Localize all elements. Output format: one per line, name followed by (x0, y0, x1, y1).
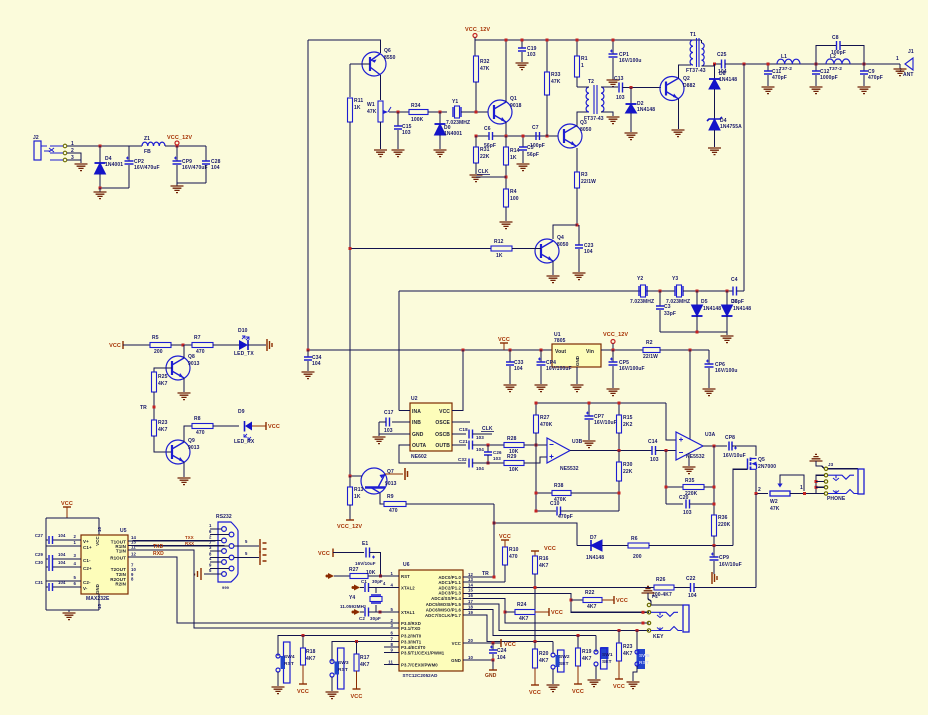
svg-text:C18: C18 (459, 427, 468, 432)
svg-text:RXD: RXD (153, 551, 164, 557)
earth at D10 (267, 339, 272, 351)
junction opamp bias (689, 349, 692, 352)
svg-text:OSCB: OSCB (435, 432, 450, 438)
svg-text:Y2: Y2 (637, 276, 643, 282)
ground under CP1 (607, 80, 620, 87)
LED D9 LED_RX (245, 422, 252, 431)
svg-text:103: 103 (384, 428, 393, 434)
svg-text:16V/10uF: 16V/10uF (719, 562, 742, 568)
svg-text:NE5532: NE5532 (560, 466, 579, 472)
ground under C19 (516, 63, 529, 70)
junction bottom net (713, 544, 716, 547)
svg-text:1N4001: 1N4001 (444, 131, 462, 137)
resistor R19 4K7 (577, 636, 579, 649)
wire T2 secondary bottom to ground (601, 112, 613, 116)
svg-text:GND: GND (485, 673, 497, 679)
ground at J3 (810, 454, 823, 461)
svg-text:Q6: Q6 (384, 48, 391, 54)
wire T1OUT to DB9 pin2 TX (128, 540, 222, 543)
ground under C11 (762, 87, 775, 94)
svg-text:C14: C14 (648, 439, 658, 445)
svg-text:R22: R22 (585, 590, 595, 596)
transistor Q2 D882 (660, 77, 684, 101)
wire Z1 to C28 (165, 145, 206, 147)
wire Q1 collector to rail (505, 40, 507, 102)
svg-text:C17: C17 (384, 410, 394, 416)
resistor R23b 4K7 (152, 420, 157, 436)
svg-text:R18: R18 (306, 649, 316, 655)
svg-text:47K: 47K (770, 506, 780, 512)
svg-text:VCC: VCC (572, 689, 584, 695)
svg-text:C8: C8 (832, 35, 839, 41)
svg-text:C1+: C1+ (83, 545, 92, 550)
wire R6 to output node (649, 545, 733, 547)
svg-text:17: 17 (468, 599, 473, 604)
svg-text:T1IN: T1IN (116, 549, 126, 554)
ground under C34 (302, 372, 315, 379)
capacitor C1 30pF (360, 587, 364, 589)
wire C21 to R28 (473, 444, 505, 446)
svg-text:P3.3/INT1: P3.3/INT1 (401, 640, 422, 645)
junction D6 (726, 290, 729, 293)
wire D10 to earth (248, 344, 266, 346)
capacitor C26 103 (487, 445, 489, 452)
wire T1 secondary bottom (702, 64, 722, 66)
svg-text:R19: R19 (582, 649, 592, 655)
port arrow at C2 (354, 609, 360, 615)
svg-text:VCC: VCC (529, 690, 541, 696)
svg-text:R23: R23 (623, 644, 633, 650)
svg-text:22/1W: 22/1W (581, 179, 596, 185)
wire J1 pin2 to earth (899, 64, 901, 68)
junction RST (379, 575, 382, 578)
svg-text:100K: 100K (411, 117, 424, 123)
resistor R11 1K (348, 98, 353, 122)
svg-text:R2: R2 (646, 340, 653, 346)
wire R38 to R30 bottom (571, 492, 619, 494)
svg-text:470: 470 (509, 554, 518, 560)
svg-text:10: 10 (468, 655, 473, 660)
junction Q1 base (475, 111, 478, 114)
wire pin15 to R22 and P4 (463, 594, 649, 613)
junction OUTA-C26 (487, 462, 490, 465)
resistor R12 1K (491, 246, 512, 251)
capacitor C3 33pF (659, 291, 661, 306)
junction R22 net (570, 599, 573, 602)
svg-text:U6: U6 (403, 562, 410, 568)
svg-text:1N4001: 1N4001 (105, 162, 123, 168)
svg-text:R13: R13 (354, 487, 364, 493)
wire R23b to Q9 base (154, 436, 172, 452)
wire R1 to T2 primary top (577, 86, 589, 88)
capacitor C28 104 (205, 146, 207, 161)
junction R19 top (577, 634, 580, 637)
diode D7 1N4148 (577, 545, 591, 547)
svg-text:R4: R4 (510, 189, 517, 195)
svg-text:104: 104 (476, 466, 484, 471)
wire U5 left rail (45, 518, 47, 610)
wire bias into U3A plus (666, 403, 678, 440)
junction SW5 drop (636, 629, 639, 632)
svg-text:J3: J3 (828, 462, 834, 467)
wire C13 to Q2 base (623, 87, 662, 89)
svg-text:103: 103 (527, 52, 536, 58)
junction emitter net (505, 135, 508, 138)
wire DB9 pin1 stub (210, 528, 222, 530)
svg-text:P3.2/INT0: P3.2/INT0 (401, 634, 422, 639)
svg-text:8550: 8550 (384, 55, 396, 61)
junction C33 (509, 349, 512, 352)
wire Q8 collector (183, 345, 185, 358)
wire U5 top rail (46, 517, 99, 519)
svg-text:11.0592MHz: 11.0592MHz (340, 604, 367, 609)
capacitor C23 104 (578, 225, 580, 245)
capacitor CP1 16V/100u (612, 40, 614, 54)
svg-text:R32: R32 (480, 59, 490, 65)
svg-text:RST: RST (401, 574, 410, 579)
svg-text:P3.1/TXD: P3.1/TXD (401, 626, 420, 631)
capacitor E1 16V/10uF (366, 548, 370, 558)
junction U3A minus node (665, 449, 668, 452)
svg-text:U3A: U3A (705, 432, 716, 438)
svg-text:220K: 220K (718, 522, 731, 528)
svg-text:4K7: 4K7 (623, 651, 633, 657)
svg-text:4K7: 4K7 (582, 656, 592, 662)
power symbol VCC under R18 (299, 683, 307, 685)
wire R8 to LED D9 (213, 425, 239, 427)
switch SW4 RST (284, 642, 291, 683)
wire Y1 to Q1 base (461, 111, 488, 113)
crystal Y4 11.0592MHz (375, 588, 377, 594)
svg-text:4K7: 4K7 (158, 381, 168, 387)
inductor L1 T37-2 (777, 59, 800, 64)
svg-text:7.023MHZ: 7.023MHZ (666, 299, 690, 305)
wire W2 to phone jack (790, 493, 824, 495)
resistor R22 4K7 (583, 598, 602, 603)
capacitor C30 104 at C2+ (46, 566, 48, 568)
ground under C23 (573, 273, 586, 280)
svg-text:C13: C13 (614, 76, 624, 82)
diode D2 1N4148 (630, 88, 632, 105)
wire U3A output (703, 445, 727, 447)
svg-text:Q5: Q5 (758, 457, 765, 463)
junction TR net (493, 522, 496, 525)
wire DB9 pin4 stub (210, 561, 222, 563)
regulator U1 7805 (552, 344, 601, 367)
resistor R31 22K (475, 136, 477, 147)
svg-text:Q2: Q2 (683, 76, 690, 82)
jack J3 internals (816, 475, 824, 493)
svg-text:20: 20 (468, 638, 473, 643)
svg-text:4K7: 4K7 (158, 427, 168, 433)
svg-text:100pF: 100pF (530, 143, 545, 149)
svg-text:8050: 8050 (557, 242, 569, 248)
resistor R20 4K7 (534, 642, 536, 650)
svg-text:ANT: ANT (903, 72, 914, 78)
junction R33 bottom (546, 135, 549, 138)
resistor R13 1K (349, 476, 351, 487)
svg-text:999: 999 (222, 585, 230, 590)
svg-text:R16: R16 (539, 556, 549, 562)
wire OSCE stub (452, 421, 470, 423)
wire top rail y=40 (475, 39, 701, 41)
capacitor C6 56pF (489, 132, 493, 140)
resistor R29 10K (504, 461, 524, 466)
switch SW5 RST (636, 631, 638, 653)
diode D8 1N4148 (714, 64, 716, 79)
wire Q6 base (350, 63, 370, 65)
resistor R10 470 (504, 545, 506, 547)
wire CP9-C28 bottom (177, 182, 206, 184)
junction R30 top (618, 449, 621, 452)
transistor Q8 9013 (166, 356, 190, 380)
junction output node (713, 445, 716, 448)
svg-text:470K: 470K (540, 422, 553, 428)
svg-text:U3B: U3B (572, 439, 583, 445)
resistor R21 10K (334, 575, 350, 577)
svg-text:Vout: Vout (555, 349, 566, 355)
junction dots at P4 (642, 611, 645, 614)
svg-text:D7: D7 (590, 535, 597, 541)
svg-text:4K7: 4K7 (360, 662, 370, 668)
svg-text:103: 103 (683, 510, 692, 516)
wire E1 to RST (370, 553, 381, 577)
wire J2 pins 2,3 to ground (67, 153, 81, 160)
crystal Y1 7.023MHZ (453, 107, 461, 117)
resistor R26 200-4K7 (654, 585, 674, 590)
junction R12 left (349, 247, 352, 250)
svg-text:R5: R5 (152, 335, 159, 341)
svg-text:1N4755A: 1N4755A (720, 124, 742, 130)
svg-text:4K7: 4K7 (539, 563, 549, 569)
resistor R24 4K7 (515, 610, 535, 615)
svg-text:SET: SET (559, 661, 569, 667)
svg-text:XTAL2: XTAL2 (401, 586, 415, 591)
power symbol VCC at D9 (265, 422, 267, 430)
svg-text:19: 19 (468, 610, 473, 615)
transformer T2 FT37-43 (586, 87, 589, 112)
resistor R17 4K7 (356, 642, 358, 655)
wire U5 pin15 to ground (98, 594, 100, 610)
svg-text:C22: C22 (686, 576, 696, 582)
svg-text:RXX: RXX (185, 541, 194, 546)
wire R21 to RST pin (368, 575, 399, 577)
driver U5 MAX232E (81, 535, 128, 594)
svg-text:TR: TR (482, 571, 489, 577)
resistor R23 4K7 (618, 631, 620, 644)
wire R5 to R7 (171, 344, 192, 346)
svg-text:OUTA: OUTA (412, 443, 426, 449)
junction bottom D5 (696, 331, 699, 334)
svg-text:100: 100 (510, 196, 519, 202)
svg-text:C25: C25 (717, 52, 727, 58)
wire bias vertical x=690 (689, 350, 691, 439)
potentiometer W1 47K (380, 75, 382, 100)
junction D0 (439, 111, 442, 114)
svg-text:P4: P4 (652, 594, 658, 599)
wire DB9 pin3 stub (210, 550, 222, 552)
wire Y3 to C4 (683, 290, 733, 292)
wire DB9 pin9 stub (210, 568, 229, 570)
svg-text:R1OUT: R1OUT (110, 556, 126, 561)
svg-text:C1-: C1- (83, 558, 91, 563)
svg-text:RST: RST (639, 660, 649, 666)
port arrow at R21 (328, 573, 334, 579)
svg-text:SET: SET (602, 659, 612, 665)
wire P4 sleeve (651, 604, 683, 606)
svg-text:104: 104 (497, 655, 506, 661)
ground under C17 (373, 437, 386, 444)
svg-text:SW5: SW5 (639, 653, 650, 659)
wire C17 to ground (379, 421, 386, 423)
svg-text:VCC: VCC (318, 551, 330, 557)
crystal Y3 7.023MHZ (675, 286, 683, 296)
svg-text:15: 15 (468, 588, 473, 593)
svg-text:Q4: Q4 (557, 235, 564, 241)
svg-text:R7: R7 (194, 335, 201, 341)
transformer T1 FT37-43 (690, 40, 693, 65)
wire R7 to LED D10 (213, 344, 239, 346)
wire Q3 collector to T2 (577, 112, 589, 127)
wire P3.2/INT0 to SW4 (278, 636, 399, 657)
earth at DB9 pin5 (195, 568, 202, 580)
svg-text:47K: 47K (480, 66, 490, 72)
svg-text:Y4: Y4 (349, 595, 355, 601)
wire TR vertical x=494 (493, 504, 495, 575)
junction R23 top (618, 629, 621, 632)
svg-text:V+: V+ (83, 539, 89, 544)
wire C18 to CLK stub (473, 433, 493, 435)
svg-text:C27: C27 (35, 533, 44, 538)
junction D2 top (630, 86, 633, 89)
wire stub P3.5 (384, 652, 399, 654)
wire T2 secondary top to C13 (601, 86, 618, 88)
svg-text:15: 15 (97, 604, 102, 609)
svg-text:103: 103 (650, 457, 659, 463)
wire stub P3.7 (384, 664, 399, 666)
transistor Q7 9013 (361, 468, 387, 494)
wire OUTA loop (399, 445, 466, 463)
svg-text:56pF: 56pF (527, 152, 539, 158)
ground under D4 (99, 188, 101, 192)
svg-text:2: 2 (758, 487, 761, 493)
svg-text:C24: C24 (497, 648, 507, 654)
svg-text:D10: D10 (238, 328, 248, 334)
wire mixer to U2 INA (398, 291, 400, 411)
ground under U3A (688, 453, 690, 466)
wire DB9 handshake loop 2 (234, 557, 259, 559)
svg-text:47K: 47K (367, 109, 377, 115)
capacitor C31 104 at V- (46, 586, 48, 588)
wire pin18 staircase to SW1 (463, 610, 596, 636)
wire output vertical x=714 (713, 446, 715, 515)
svg-text:VCC_12V: VCC_12V (465, 27, 490, 33)
svg-text:1: 1 (800, 485, 803, 491)
svg-text:16V/100u: 16V/100u (619, 58, 641, 64)
wire Q8 base to R25 (154, 368, 172, 372)
capacitor CP8 16V/10uF (729, 442, 732, 451)
wire R11 down long vertical x=350 (349, 122, 351, 476)
svg-text:4K7: 4K7 (519, 616, 529, 622)
svg-text:P3.5/T1/CEX1/PWM1: P3.5/T1/CEX1/PWM1 (401, 651, 445, 656)
ground under CP9 (176, 183, 178, 186)
svg-text:W1: W1 (367, 102, 375, 108)
wire R32 branch (474, 40, 476, 56)
svg-text:R26: R26 (656, 577, 666, 583)
svg-text:9018: 9018 (510, 103, 522, 109)
resistor R25 4K7 (152, 372, 157, 392)
capacitor C11 470pF (767, 64, 769, 71)
capacitor C34 104 (307, 350, 309, 357)
svg-text:OSCE: OSCE (435, 420, 450, 426)
ground under C9 (858, 87, 871, 94)
svg-text:C20: C20 (679, 495, 689, 501)
svg-text:104: 104 (476, 447, 484, 452)
resistor R3 22/1W (576, 148, 578, 172)
wire GND pin10 (463, 659, 493, 661)
wire Q4 emitter (552, 261, 554, 275)
wire VCC rail y=350 (308, 349, 552, 351)
svg-text:ADC7/SCLK/P1.7: ADC7/SCLK/P1.7 (425, 613, 462, 618)
svg-text:U2: U2 (411, 396, 418, 402)
svg-text:J1: J1 (908, 49, 914, 55)
resistor R14 1K (505, 136, 507, 147)
svg-text:1: 1 (896, 56, 899, 62)
svg-text:1N4148: 1N4148 (703, 306, 721, 312)
wire GND pin (379, 433, 410, 435)
svg-text:LED_RX: LED_RX (234, 439, 255, 445)
wire left tall vertical x=308 (307, 40, 309, 350)
capacitor CP4 16V/100uF (540, 350, 542, 362)
svg-text:C29: C29 (35, 552, 44, 557)
svg-text:INB: INB (412, 420, 421, 426)
svg-text:104: 104 (718, 69, 727, 75)
svg-text:VCC: VCC (616, 598, 628, 604)
op-amp U3B NE5532 (547, 438, 570, 463)
capacitor C25 104 (722, 60, 726, 69)
svg-text:7805: 7805 (554, 338, 566, 344)
wire Q2 collector to T1 (679, 65, 692, 79)
svg-text:R25: R25 (158, 374, 168, 380)
svg-text:9013: 9013 (188, 361, 200, 367)
svg-text:J2: J2 (33, 135, 39, 141)
svg-text:ADC6/MISO/P1.6: ADC6/MISO/P1.6 (426, 608, 462, 613)
resistor R15 2K2 (618, 403, 620, 415)
wire R32 to Q1 base (475, 82, 477, 112)
capacitor C7 100pF (536, 132, 540, 140)
svg-text:33pF: 33pF (732, 299, 744, 305)
svg-text:MAX232E: MAX232E (86, 596, 110, 602)
mosfet Q5 2N7000 (747, 459, 749, 470)
svg-text:P3.7/CEX0/PWM0: P3.7/CEX0/PWM0 (401, 663, 438, 668)
wire pin19 staircase to SW2 (463, 615, 553, 642)
wire DB9 handshake loop 1 (234, 545, 259, 547)
svg-text:1K: 1K (354, 105, 361, 111)
resistor R18 4K7 (302, 636, 304, 649)
power symbol VCC under R23 (615, 678, 623, 680)
svg-text:R27: R27 (349, 567, 359, 573)
svg-text:GND: GND (95, 584, 100, 594)
junction CP4 (540, 349, 543, 352)
svg-text:RST: RST (338, 667, 348, 673)
svg-text:1K: 1K (496, 253, 503, 259)
svg-text:100pF: 100pF (831, 50, 846, 56)
junction rail x=506 (505, 39, 508, 42)
svg-text:FT37-43: FT37-43 (584, 116, 604, 122)
wire U2 VCC pin up (452, 350, 463, 411)
svg-text:22/1W: 22/1W (643, 354, 658, 360)
wire J3 sleeve to body (828, 468, 858, 470)
